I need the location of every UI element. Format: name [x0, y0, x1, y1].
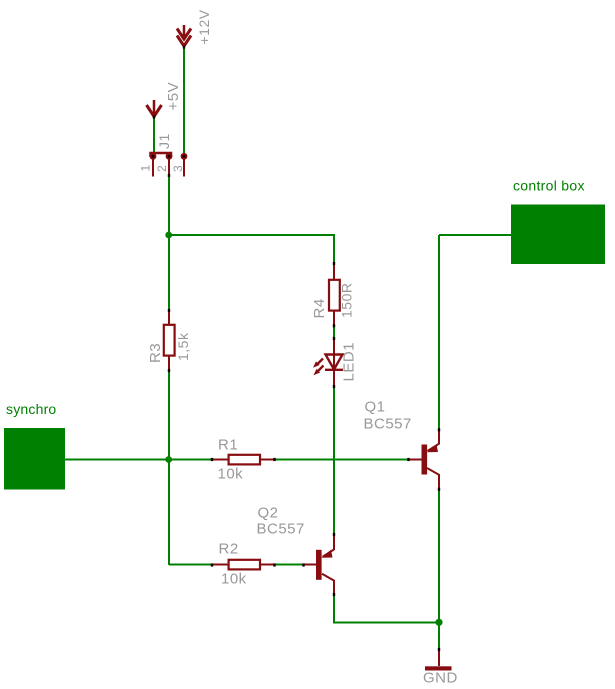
svg-text:LED1: LED1 — [341, 342, 358, 382]
svg-text:synchro: synchro — [6, 401, 56, 417]
svg-text:BC557: BC557 — [364, 416, 412, 433]
svg-text:10k: 10k — [218, 466, 244, 483]
svg-text:BC557: BC557 — [257, 521, 305, 538]
svg-text:150R: 150R — [339, 283, 355, 318]
svg-text:+5V: +5V — [165, 82, 182, 111]
svg-text:1: 1 — [139, 164, 153, 171]
svg-text:Q2: Q2 — [258, 505, 279, 522]
svg-text:10k: 10k — [221, 571, 247, 588]
svg-text:R1: R1 — [218, 437, 238, 454]
svg-text:J1: J1 — [156, 133, 172, 149]
svg-text:R3: R3 — [147, 343, 164, 363]
svg-text:+12V: +12V — [196, 9, 212, 44]
svg-text:2: 2 — [155, 165, 169, 172]
svg-text:3: 3 — [171, 165, 185, 172]
svg-text:R2: R2 — [219, 541, 239, 558]
svg-text:control box: control box — [513, 178, 585, 194]
svg-text:R4: R4 — [311, 298, 328, 318]
svg-text:1,5k: 1,5k — [175, 332, 191, 361]
svg-text:GND: GND — [423, 670, 458, 687]
svg-text:Q1: Q1 — [365, 399, 386, 416]
